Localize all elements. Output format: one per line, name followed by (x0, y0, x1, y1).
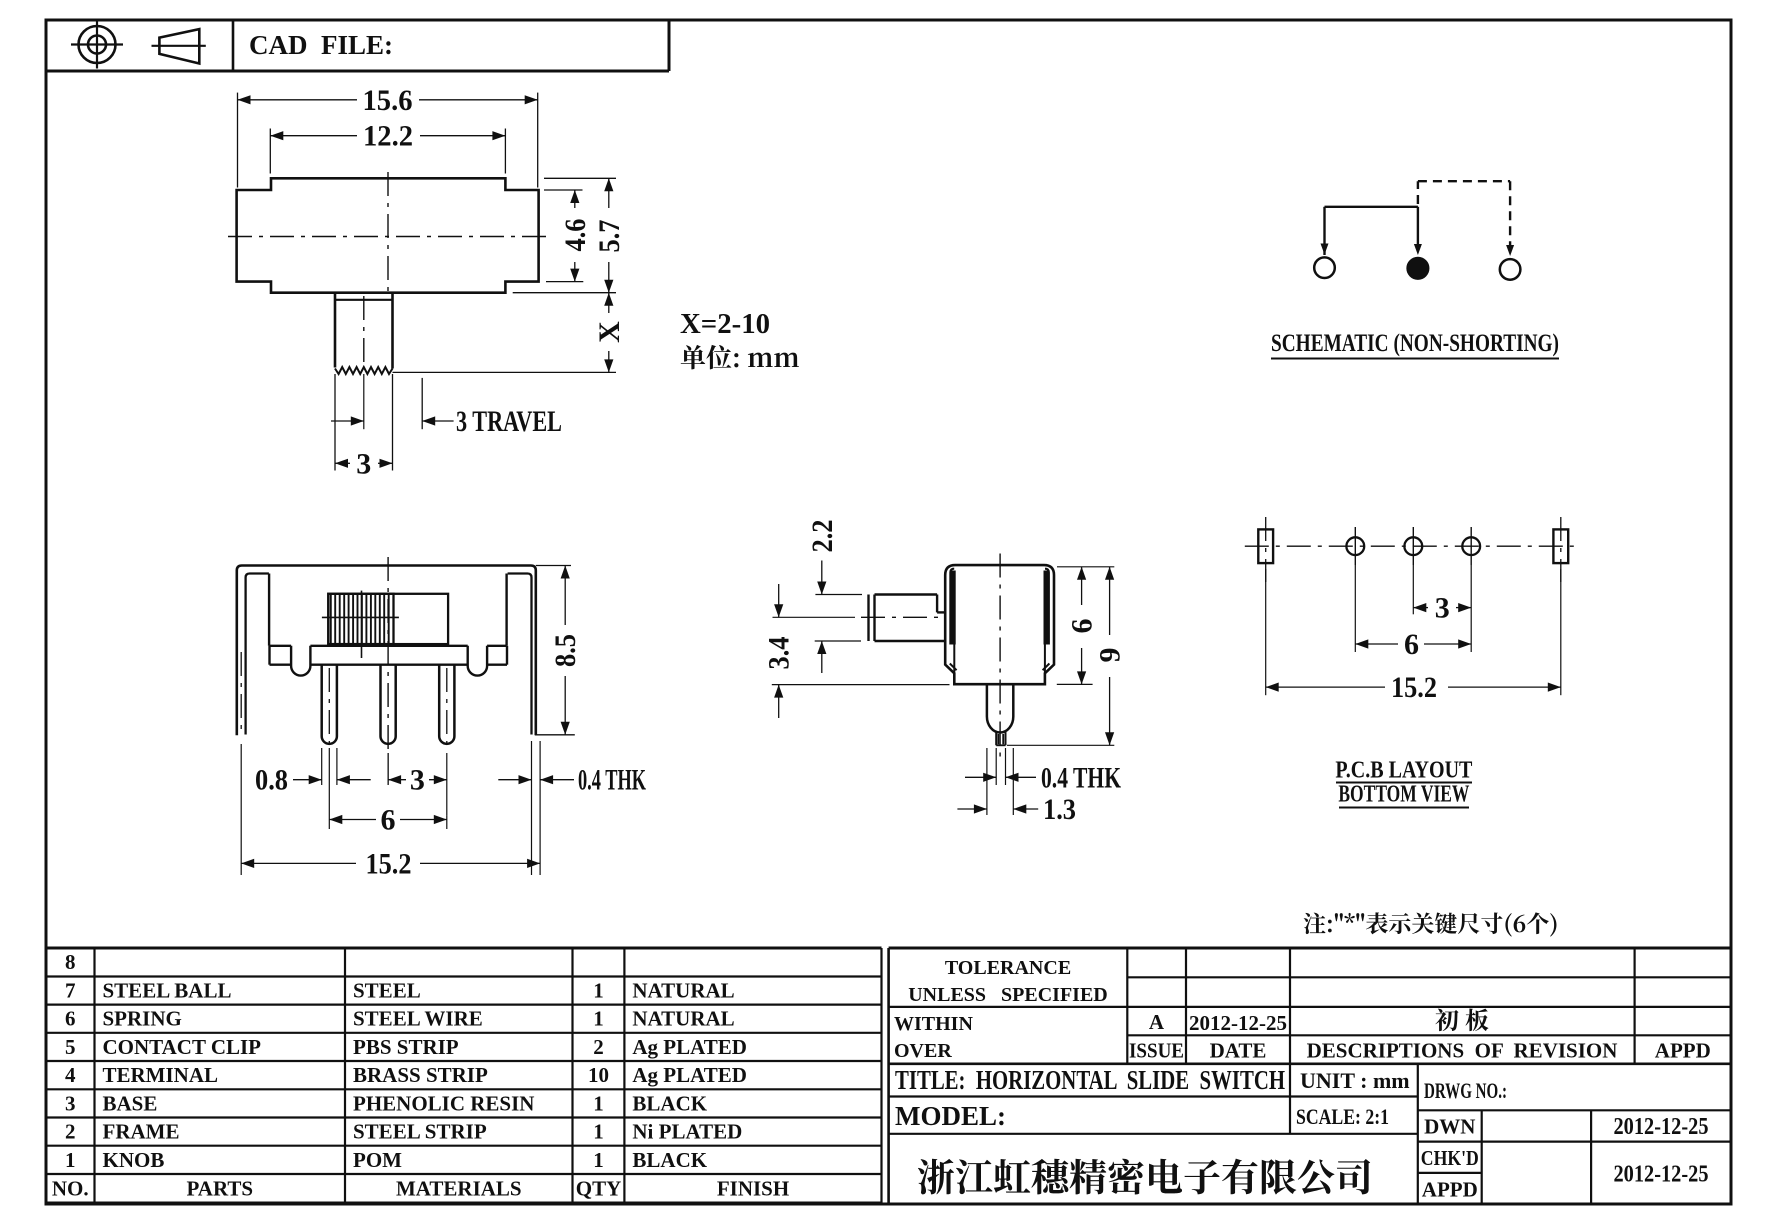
svg-text:X=2-10: X=2-10 (680, 309, 770, 340)
svg-text:PHENOLIC RESIN: PHENOLIC RESIN (353, 1091, 534, 1115)
svg-text:3.4: 3.4 (763, 637, 796, 670)
svg-text:2012-12-25: 2012-12-25 (1189, 1011, 1287, 1035)
side view: inner frame strip right (1044, 571, 1050, 645)
svg-text:1: 1 (593, 979, 604, 1003)
svg-text:1: 1 (593, 1148, 604, 1172)
svg-text:10: 10 (588, 1063, 609, 1087)
dimension 8.5 (536, 565, 571, 567)
svg-text:TITLE: HORIZONTAL SLIDE SWI: TITLE: HORIZONTAL SLIDE SWITCH (895, 1065, 1285, 1095)
svg-text:0.4 THK: 0.4 THK (578, 764, 646, 797)
schematic: solid wire to common (1417, 207, 1419, 247)
front view: base flange (269, 645, 291, 647)
svg-text:TERMINAL: TERMINAL (103, 1063, 219, 1087)
svg-text:APPD: APPD (1655, 1039, 1711, 1063)
dimension 15.6 (237, 93, 239, 188)
svg-text:15.6: 15.6 (363, 84, 413, 117)
svg-text:NATURAL: NATURAL (632, 1007, 734, 1031)
svg-text:QTY: QTY (576, 1177, 622, 1201)
svg-text:1: 1 (65, 1148, 76, 1172)
side view: bottom pin (954, 683, 987, 686)
front view: frame top + legs outer (237, 566, 536, 736)
front view: pin 3 (439, 665, 454, 744)
svg-text:15.2: 15.2 (366, 847, 412, 880)
svg-text:2: 2 (593, 1035, 604, 1059)
side view: knob side profile (867, 595, 869, 642)
svg-text:0.4 THK: 0.4 THK (1041, 761, 1121, 794)
svg-text:2012-12-25: 2012-12-25 (1614, 1114, 1709, 1140)
pcb: right slot pad (1553, 529, 1568, 563)
svg-text:Ag PLATED: Ag PLATED (632, 1035, 747, 1059)
svg-text:POM: POM (353, 1148, 402, 1172)
svg-text:0.8: 0.8 (255, 764, 288, 797)
revision description 初板 (1435, 1009, 1488, 1032)
parts table grid (46, 947, 882, 950)
svg-text:Ni PLATED: Ni PLATED (632, 1120, 742, 1144)
svg-text:PBS STRIP: PBS STRIP (353, 1035, 459, 1059)
svg-text:APPD: APPD (1422, 1178, 1478, 1202)
svg-text:TOLERANCE: TOLERANCE (945, 957, 1071, 979)
unit note glyphs (681, 345, 799, 369)
svg-text:1.3: 1.3 (1043, 793, 1076, 826)
svg-text:MATERIALS: MATERIALS (396, 1177, 522, 1201)
schematic: solid wire left (1323, 207, 1325, 255)
front view: right rivet tab (468, 646, 487, 676)
svg-text:OVER: OVER (894, 1040, 952, 1062)
top view: stem break (wavy) line (335, 367, 393, 374)
dimension 0.8 (321, 748, 323, 785)
svg-text:P.C.B LAYOUT: P.C.B LAYOUT (1335, 758, 1472, 784)
schematic: pin 1 terminal (open) (1314, 257, 1335, 278)
front view: left rivet tab (291, 646, 310, 676)
svg-text:1: 1 (593, 1120, 604, 1144)
svg-text:STEEL WIRE: STEEL WIRE (353, 1007, 483, 1031)
front view: pin 1 (322, 665, 337, 744)
dimension 1.3 (986, 748, 988, 815)
svg-text:DWN: DWN (1424, 1115, 1475, 1139)
side view: vertical centerline (999, 554, 1001, 758)
svg-text:FINISH: FINISH (717, 1177, 789, 1201)
schematic: dashed wire (1417, 181, 1419, 204)
dimension 0.4 THK (side) (995, 748, 997, 785)
svg-text:CAD FILE:: CAD FILE: (249, 30, 393, 60)
svg-text:1: 1 (593, 1091, 604, 1115)
front view: right leg inner (508, 574, 532, 735)
dimension 2.2 (815, 594, 862, 596)
front view: pin 2 (381, 665, 396, 744)
dimension 6 (pins 1-3) (328, 748, 330, 829)
svg-text:UNLESS SPECIFIED: UNLESS SPECIFIED (908, 984, 1108, 1006)
svg-text:6: 6 (1066, 619, 1099, 634)
dimension 6 (side) (1057, 566, 1114, 568)
svg-text:BRASS STRIP: BRASS STRIP (353, 1063, 488, 1087)
pcb: horizontal centerline (1245, 545, 1581, 547)
svg-text:3: 3 (1435, 592, 1450, 625)
svg-text:DRWG NO.:: DRWG NO.: (1424, 1078, 1507, 1103)
svg-text:2.2: 2.2 (806, 520, 839, 553)
top view: vertical centerline (387, 172, 389, 296)
svg-text:3: 3 (356, 447, 371, 480)
svg-text:8.5: 8.5 (549, 634, 582, 667)
svg-text:BASE: BASE (103, 1091, 158, 1115)
svg-text:PARTS: PARTS (187, 1177, 254, 1201)
pcb: hole 2 (1404, 537, 1422, 555)
pcb: hole 3 (1462, 537, 1480, 555)
svg-text:UNIT : mm: UNIT : mm (1300, 1068, 1410, 1093)
title header box (46, 70, 669, 73)
svg-text:5.7: 5.7 (593, 220, 626, 253)
front view: knob crosshair (322, 616, 399, 618)
svg-text:STEEL BALL: STEEL BALL (103, 979, 232, 1003)
svg-text:8: 8 (65, 950, 76, 974)
svg-text:2012-12-25: 2012-12-25 (1614, 1162, 1709, 1188)
svg-text:4: 4 (65, 1063, 76, 1087)
front view: knob (knurled) (328, 594, 393, 644)
svg-text:SCHEMATIC (NON-SHORTING): SCHEMATIC (NON-SHORTING) (1271, 330, 1559, 357)
dimension 3 TRAVEL (421, 378, 423, 429)
front view: main vertical centerline (387, 557, 389, 753)
dimension 3 (pin pitch) (387, 753, 389, 785)
pcb: left slot pad (1258, 529, 1273, 563)
schematic: pin 2 terminal (filled) (1408, 258, 1429, 279)
dimension 15.2 (front) (240, 744, 242, 875)
svg-text:BLACK: BLACK (632, 1091, 707, 1115)
dimension 3.4 (773, 616, 856, 618)
pcb dimension 15.2 (1265, 569, 1267, 695)
svg-text:Ag PLATED: Ag PLATED (632, 1063, 747, 1087)
title block outline (887, 948, 890, 1204)
dimension 4.6 (544, 189, 583, 191)
company name glyphs (918, 1159, 1370, 1195)
svg-text:1: 1 (593, 1007, 604, 1031)
top view: horizontal centerline (228, 236, 546, 238)
dimension 5.7 (544, 177, 616, 179)
svg-text:SCALE: 2:1: SCALE: 2:1 (1296, 1104, 1389, 1129)
svg-text:3: 3 (65, 1091, 76, 1115)
svg-text:X: X (593, 321, 626, 343)
svg-text:6: 6 (1404, 628, 1419, 661)
svg-text:12.2: 12.2 (363, 120, 413, 153)
svg-text:3: 3 (410, 764, 425, 797)
first-angle projection symbol: cone (159, 29, 199, 63)
dimension 12.2 (269, 129, 271, 174)
dimension X (393, 371, 617, 373)
pcb: hole 1 (1346, 537, 1364, 555)
dimension 9 (side) (1007, 744, 1114, 746)
svg-text:4.6: 4.6 (559, 219, 592, 252)
top view: stem centerline (363, 296, 365, 364)
svg-text:STEEL: STEEL (353, 979, 421, 1003)
svg-text:BOTTOM VIEW: BOTTOM VIEW (1338, 782, 1469, 808)
pcb dimension 3 (1412, 565, 1414, 614)
dimension 3 (stem width) (334, 374, 336, 471)
schematic: pin 3 terminal (open) (1500, 259, 1521, 280)
svg-text:KNOB: KNOB (103, 1148, 165, 1172)
svg-text:WITHIN: WITHIN (894, 1013, 973, 1035)
svg-text:SPRING: SPRING (103, 1007, 182, 1031)
svg-text:NATURAL: NATURAL (632, 979, 734, 1003)
svg-text:CHK'D: CHK'D (1421, 1146, 1479, 1170)
svg-text:DATE: DATE (1210, 1039, 1267, 1063)
top view: switch body outline (plus shape) (237, 178, 539, 292)
svg-text:5: 5 (65, 1035, 76, 1059)
svg-text:ISSUE: ISSUE (1129, 1039, 1184, 1063)
top view: knob stem (334, 293, 337, 368)
front view: left leg inner (246, 574, 269, 735)
svg-text:CONTACT CLIP: CONTACT CLIP (103, 1035, 262, 1059)
svg-text:STEEL STRIP: STEEL STRIP (353, 1120, 487, 1144)
svg-text:6: 6 (381, 804, 396, 837)
svg-text:FRAME: FRAME (103, 1120, 180, 1144)
first-angle projection symbol: circle (79, 26, 116, 63)
front view: slot opening (328, 594, 448, 644)
front view: leg centerlines (240, 652, 242, 734)
svg-text:DESCRIPTIONS OF REVISION: DESCRIPTIONS OF REVISION (1307, 1039, 1618, 1063)
svg-text:NO.: NO. (52, 1177, 89, 1201)
svg-text:A: A (1149, 1010, 1165, 1034)
svg-text:3 TRAVEL: 3 TRAVEL (456, 405, 562, 438)
pcb dimension 6 (1354, 565, 1356, 652)
dimension 0.4 THK (front) (498, 779, 531, 781)
side view: body outline (945, 565, 1054, 684)
svg-text:MODEL:: MODEL: (895, 1101, 1006, 1131)
side view: knob centerline (861, 616, 941, 618)
svg-text:7: 7 (65, 979, 76, 1003)
svg-text:9: 9 (1094, 648, 1127, 663)
front view: body side edges (268, 574, 270, 646)
svg-text:6: 6 (65, 1007, 76, 1031)
svg-text:BLACK: BLACK (632, 1148, 707, 1172)
side view: inner frame strip left (950, 571, 956, 645)
svg-text:2: 2 (65, 1120, 76, 1144)
note glyphs (1304, 912, 1557, 936)
svg-text:15.2: 15.2 (1391, 671, 1437, 704)
